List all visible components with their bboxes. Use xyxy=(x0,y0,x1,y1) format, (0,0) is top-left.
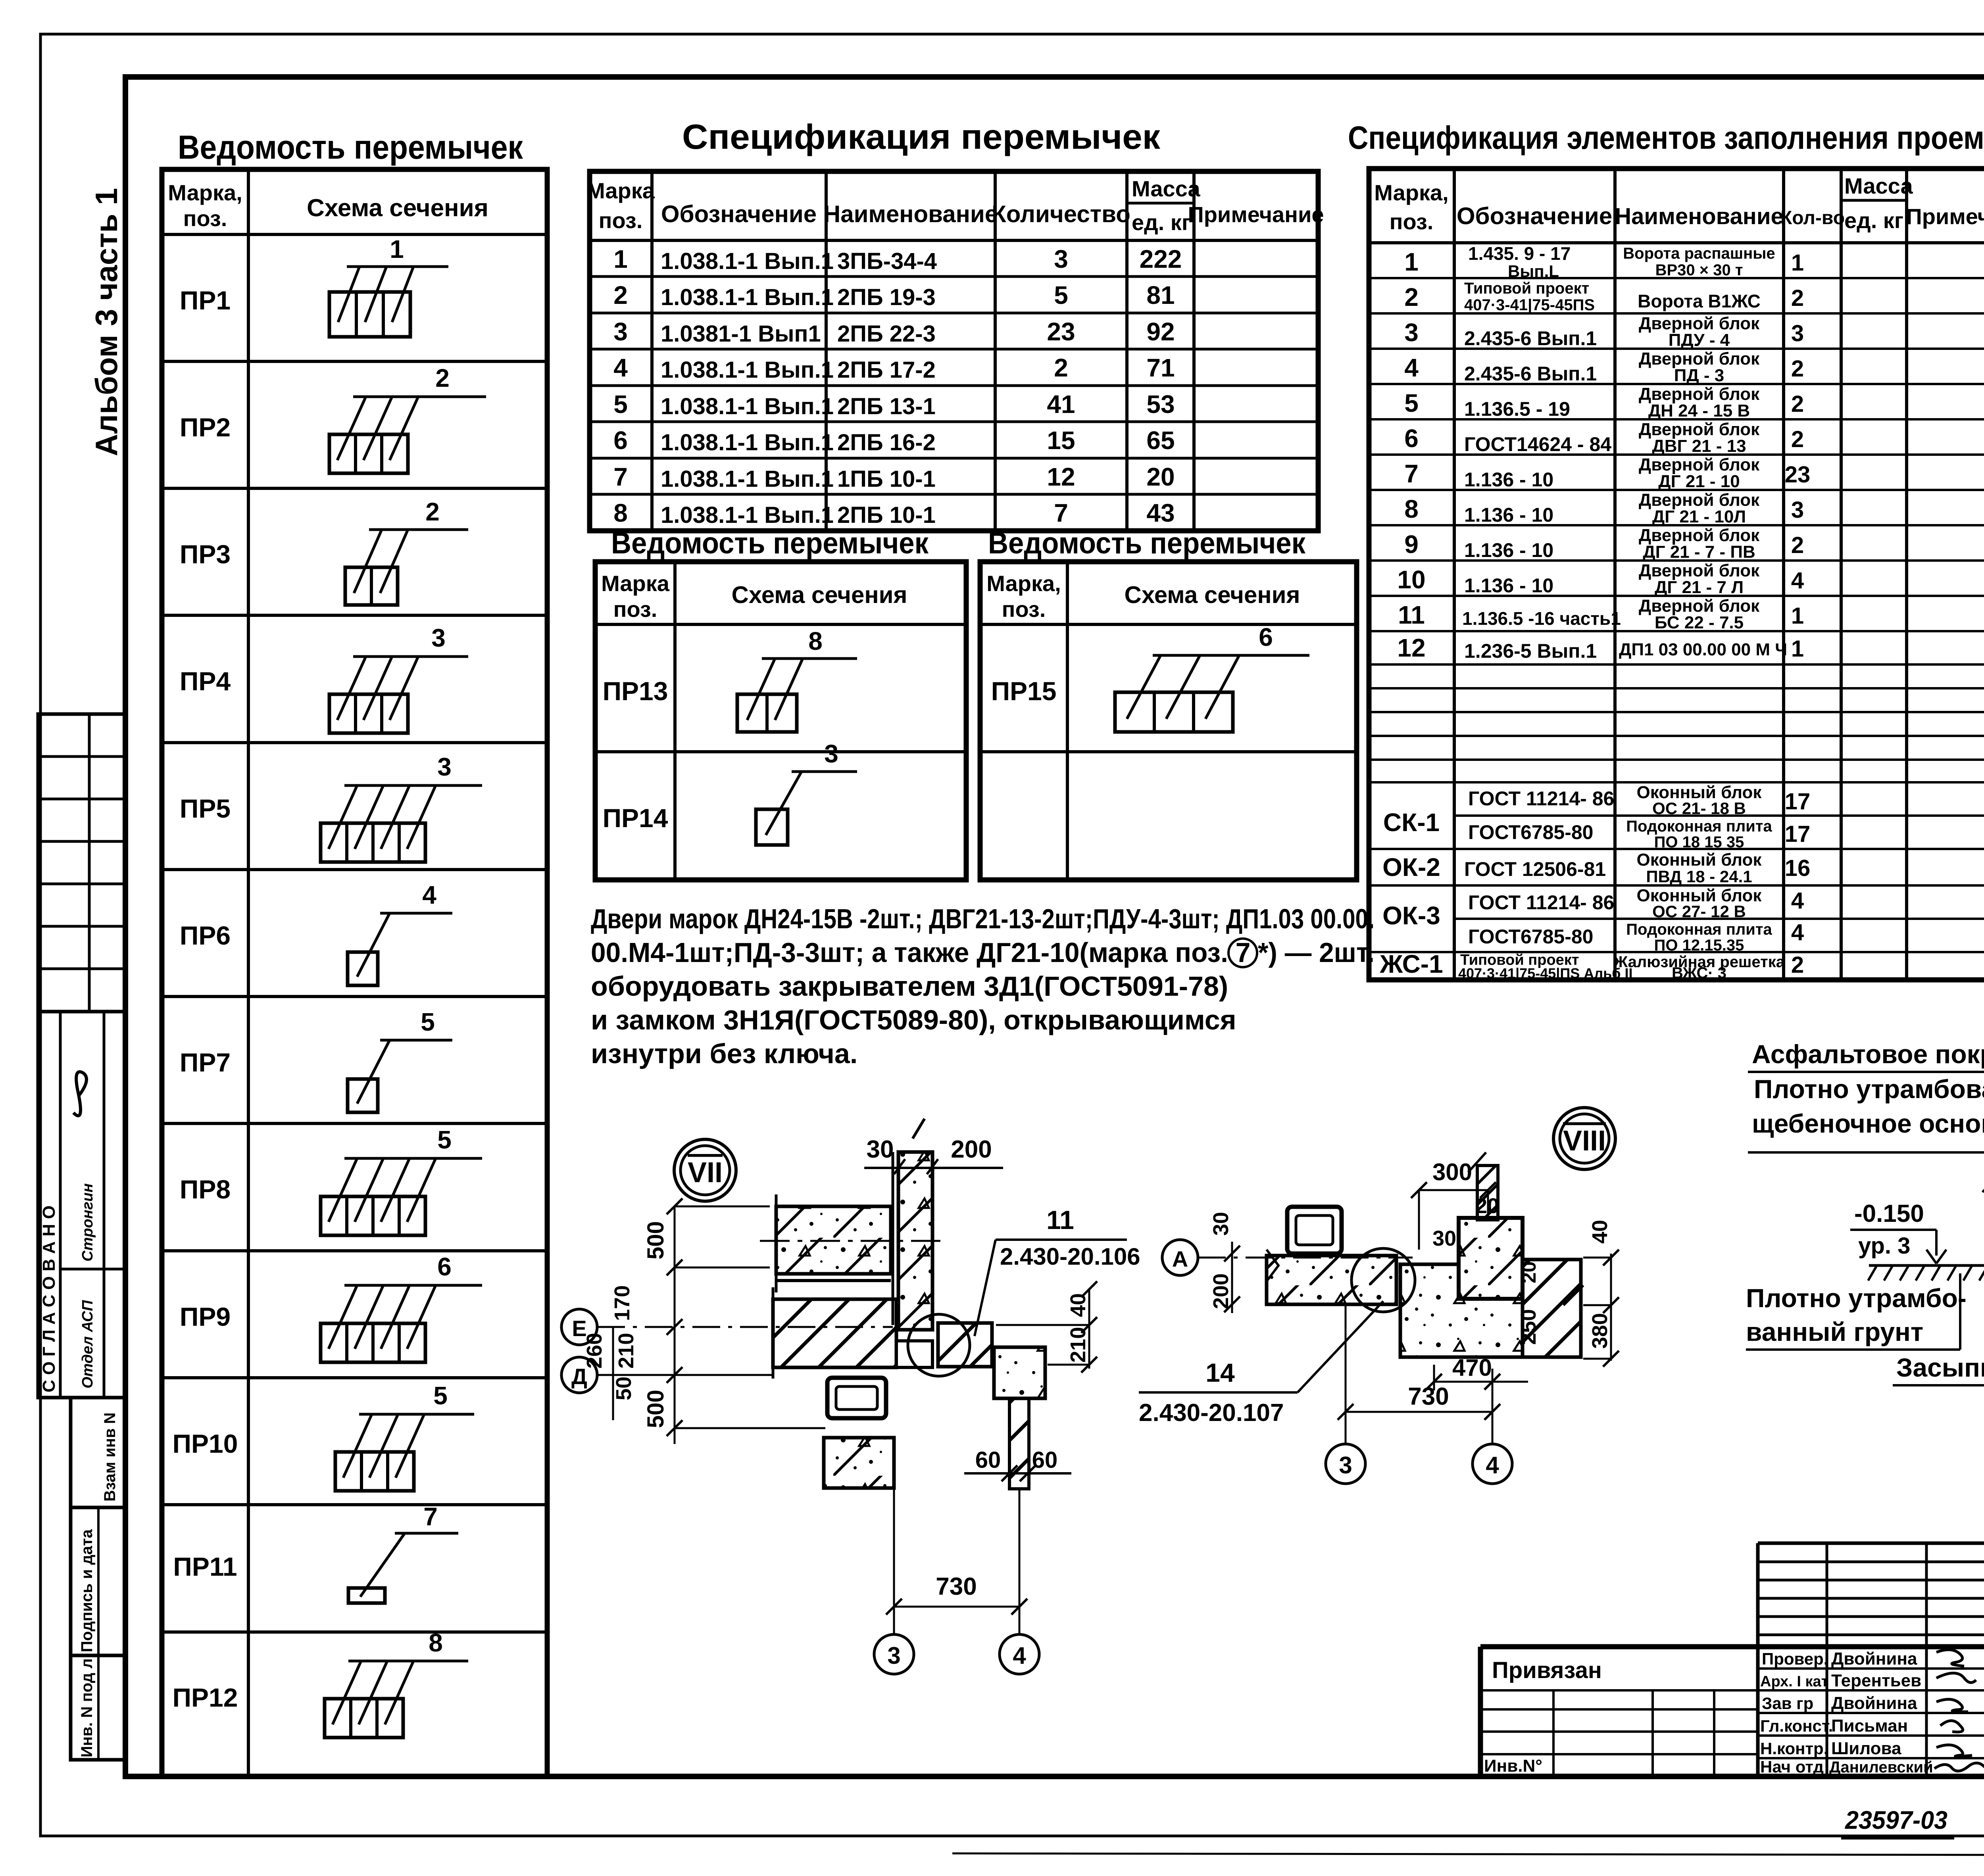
svg-text:1.038.1-1 Вып.1: 1.038.1-1 Вып.1 xyxy=(661,394,834,419)
svg-text:2: 2 xyxy=(1791,391,1804,417)
svg-text:ДГ 21 - 7 - ПВ: ДГ 21 - 7 - ПВ xyxy=(1643,542,1755,562)
svg-text:407·3·41|75-45|ПS Альб II: 407·3·41|75-45|ПS Альб II xyxy=(1458,965,1632,982)
svg-text:Вып.L: Вып.L xyxy=(1508,262,1559,280)
svg-text:1: 1 xyxy=(1404,248,1419,276)
svg-text:1.136 - 10: 1.136 - 10 xyxy=(1464,574,1553,597)
svg-text:2ПБ 13-1: 2ПБ 13-1 xyxy=(837,394,936,419)
svg-text:ПР15: ПР15 xyxy=(991,676,1057,706)
svg-text:и замком 3Н1Я(ГОСТ5089-80), от: и замком 3Н1Я(ГОСТ5089-80), открывающимс… xyxy=(591,1004,1236,1035)
svg-text:ЖС-1: ЖС-1 xyxy=(1379,950,1443,978)
svg-text:8: 8 xyxy=(1404,495,1419,523)
svg-text:Стронгин: Стронгин xyxy=(79,1183,96,1262)
svg-text:4: 4 xyxy=(1404,353,1419,382)
svg-text:ПР14: ПР14 xyxy=(603,803,668,833)
ПР6 section diagram xyxy=(348,881,452,985)
VII middle hatched slab xyxy=(773,1287,932,1379)
svg-text:ПР10: ПР10 xyxy=(173,1429,238,1458)
svg-text:ПР13: ПР13 xyxy=(603,676,668,706)
ПР9 section diagram xyxy=(321,1252,482,1362)
svg-text:Терентьев: Терентьев xyxy=(1831,1671,1921,1690)
svg-text:6: 6 xyxy=(1259,623,1273,651)
VIII steel tube profile xyxy=(1287,1207,1342,1254)
ПР10 section diagram xyxy=(335,1381,474,1491)
svg-text:ДГ 21 - 10: ДГ 21 - 10 xyxy=(1658,472,1740,491)
svg-text:2ПБ 17-2: 2ПБ 17-2 xyxy=(837,357,936,383)
svg-text:ПР5: ПР5 xyxy=(180,794,231,823)
svg-text:4: 4 xyxy=(1486,1452,1499,1479)
svg-text:9: 9 xyxy=(1404,530,1419,559)
svg-text:поз.: поз. xyxy=(613,597,657,622)
svg-text:17: 17 xyxy=(1785,821,1811,847)
svg-text:3ПБ-34-4: 3ПБ-34-4 xyxy=(837,248,937,274)
VIII dim 300 20 30 xyxy=(1411,1159,1499,1250)
svg-text:ОС 21- 18 В: ОС 21- 18 В xyxy=(1652,799,1746,818)
svg-text:380: 380 xyxy=(1588,1313,1612,1349)
svg-text:40: 40 xyxy=(1588,1220,1612,1244)
svg-text:Ведомость перемычек: Ведомость перемычек xyxy=(611,526,929,560)
title block outer frame xyxy=(1480,1601,1984,1776)
svg-text:4: 4 xyxy=(1013,1642,1026,1669)
svg-text:1: 1 xyxy=(613,245,628,273)
svg-text:ГОСТ 12506-81: ГОСТ 12506-81 xyxy=(1464,858,1606,880)
svg-text:7: 7 xyxy=(613,463,628,491)
svg-text:Взам инв N: Взам инв N xyxy=(101,1412,119,1502)
svg-text:Марка,: Марка, xyxy=(168,180,242,205)
svg-text:СК-1: СК-1 xyxy=(1383,808,1440,837)
svg-text:3: 3 xyxy=(437,753,452,781)
VIII leader 14 2.430-20.107 xyxy=(1139,1301,1383,1427)
svg-text:300: 300 xyxy=(1432,1159,1472,1185)
svg-text:Спецификация элементов заполне: Спецификация элементов заполнения проемо… xyxy=(1348,120,1984,156)
right table row lines xyxy=(1369,278,1984,952)
svg-text:Марка,: Марка, xyxy=(986,571,1061,596)
svg-text:Двойнина: Двойнина xyxy=(1831,1694,1917,1713)
svg-text:Схема сечения: Схема сечения xyxy=(1125,582,1300,608)
svg-text:ДП1 03 00.00 00 М Ч: ДП1 03 00.00 00 М Ч xyxy=(1619,640,1787,659)
svg-text:1.038.1-1 Вып.1: 1.038.1-1 Вып.1 xyxy=(661,466,834,492)
svg-text:Ведомость перемычек: Ведомость перемычек xyxy=(988,526,1306,560)
side stamp Взам инв N xyxy=(71,1398,126,1507)
VII axis circles Е Д xyxy=(561,1309,893,1393)
svg-text:1.038.1-1 Вып.1: 1.038.1-1 Вып.1 xyxy=(661,430,834,455)
svg-text:2: 2 xyxy=(1404,283,1419,311)
svg-text:Обозначение: Обозначение xyxy=(661,201,817,227)
svg-text:Плотно утрамбованное: Плотно утрамбованное xyxy=(1754,1074,1984,1104)
svg-text:Марка: Марка xyxy=(586,178,655,203)
VII dim 40 210 right xyxy=(996,1281,1097,1373)
svg-text:Масса: Масса xyxy=(1844,173,1913,198)
title: Ведомость перемычек (small table 2) xyxy=(988,526,1306,560)
svg-text:10: 10 xyxy=(1397,565,1425,594)
svg-text:1: 1 xyxy=(1791,603,1804,629)
svg-text:8: 8 xyxy=(613,499,628,527)
note paragraph about doors xyxy=(591,903,1375,1069)
svg-text:Ворота В1ЖС: Ворота В1ЖС xyxy=(1638,291,1761,311)
title block upper narrow grid xyxy=(1758,1536,1984,1647)
svg-text:Марка: Марка xyxy=(601,571,670,596)
svg-text:210: 210 xyxy=(614,1333,638,1369)
VIII dims 20 250 380 40 xyxy=(1517,1220,1619,1367)
svg-text:1.236-5 Вып.1: 1.236-5 Вып.1 xyxy=(1464,640,1597,662)
svg-text:4: 4 xyxy=(422,881,436,909)
svg-text:Альбом 3 часть 1: Альбом 3 часть 1 xyxy=(89,188,124,456)
IX level -0.150 ур.3 xyxy=(1850,1200,1946,1263)
svg-text:14: 14 xyxy=(1205,1358,1235,1387)
svg-text:3: 3 xyxy=(431,624,446,652)
svg-text:ур. 3: ур. 3 xyxy=(1858,1233,1910,1259)
svg-text:3: 3 xyxy=(887,1642,900,1669)
svg-text:16: 16 xyxy=(1785,855,1811,881)
svg-text:ПР1: ПР1 xyxy=(180,286,231,315)
svg-text:ПР9: ПР9 xyxy=(180,1302,231,1331)
svg-text:6: 6 xyxy=(613,426,628,455)
ПР15 section diagram xyxy=(1115,623,1309,732)
svg-text:2: 2 xyxy=(435,364,450,392)
svg-text:5: 5 xyxy=(437,1125,452,1154)
VII dim 30 200 xyxy=(864,1136,1003,1174)
svg-text:1.038.1-1 Вып.1: 1.038.1-1 Вып.1 xyxy=(661,248,834,274)
svg-text:поз.: поз. xyxy=(1002,597,1046,622)
svg-text:2: 2 xyxy=(1791,952,1804,978)
svg-text:ПДУ - 4: ПДУ - 4 xyxy=(1669,330,1730,350)
VIII left dims 30 200 xyxy=(1209,1212,1240,1313)
svg-text:Привязан: Привязан xyxy=(1492,1657,1602,1683)
svg-text:1.136 - 10: 1.136 - 10 xyxy=(1464,469,1553,491)
VII narrow column below xyxy=(1009,1398,1029,1489)
svg-text:щебеночное основание: щебеночное основание xyxy=(1752,1109,1984,1138)
svg-text:ДГ 21 - 7 Л: ДГ 21 - 7 Л xyxy=(1655,578,1744,597)
svg-text:2ПБ 10-1: 2ПБ 10-1 xyxy=(837,502,936,528)
svg-text:41: 41 xyxy=(1047,390,1075,419)
svg-text:730: 730 xyxy=(936,1573,977,1600)
svg-text:6: 6 xyxy=(437,1252,452,1281)
svg-text:60: 60 xyxy=(975,1447,1001,1473)
svg-text:Ведомость перемычек: Ведомость перемычек xyxy=(178,129,523,166)
svg-text:Подоконная плита: Подоконная плита xyxy=(1626,921,1772,938)
svg-text:поз.: поз. xyxy=(183,206,227,231)
VIII left slab xyxy=(1267,1250,1396,1304)
svg-text:2.430-20.107: 2.430-20.107 xyxy=(1139,1399,1284,1427)
svg-text:200: 200 xyxy=(1209,1273,1233,1309)
svg-text:1: 1 xyxy=(1791,250,1804,276)
svg-text:2: 2 xyxy=(425,497,440,526)
svg-text:2.435-6 Вып.1: 2.435-6 Вып.1 xyxy=(1464,327,1597,349)
svg-text:Схема сечения: Схема сечения xyxy=(732,582,907,608)
svg-text:ОК-2: ОК-2 xyxy=(1382,853,1440,881)
svg-text:ПД - 3: ПД - 3 xyxy=(1674,366,1724,385)
svg-text:ПР6: ПР6 xyxy=(180,921,231,950)
svg-text:ДГ 21 - 10Л: ДГ 21 - 10Л xyxy=(1652,507,1746,526)
svg-text:Двери марок ДН24-15В -2шт: Двери марок ДН24-15В -2шт.; ДВГ21-13-2шт… xyxy=(591,903,1375,934)
svg-text:ВЖС· 3: ВЖС· 3 xyxy=(1672,964,1726,982)
svg-text:Нач отд: Нач отд xyxy=(1760,1757,1824,1776)
svg-text:А: А xyxy=(1172,1246,1188,1271)
svg-text:Провер.: Провер. xyxy=(1762,1649,1828,1668)
ПР2 section diagram xyxy=(329,364,486,473)
VIII axis circle А xyxy=(1162,1240,1413,1275)
svg-text:Оконный блок: Оконный блок xyxy=(1637,850,1762,870)
svg-text:ПО 18 15 35: ПО 18 15 35 xyxy=(1654,833,1744,851)
VII right lintel block xyxy=(938,1323,992,1367)
svg-text:3: 3 xyxy=(1054,245,1068,273)
svg-text:30: 30 xyxy=(867,1136,894,1163)
svg-text:ПВД 18 - 24.1: ПВД 18 - 24.1 xyxy=(1646,867,1752,886)
svg-text:Арх. I кат: Арх. I кат xyxy=(1760,1673,1828,1690)
svg-text:Наименование: Наименование xyxy=(1615,204,1784,229)
VIII detail circle xyxy=(1352,1248,1415,1312)
svg-text:15: 15 xyxy=(1047,426,1075,455)
svg-text:2ПБ 16-2: 2ПБ 16-2 xyxy=(837,430,936,455)
side stamp upper empty grid xyxy=(38,714,126,1012)
VII leader 11 2.430-20.106 xyxy=(975,1205,1140,1336)
svg-text:4: 4 xyxy=(1791,888,1804,914)
svg-text:ПО 12.15.35: ПО 12.15.35 xyxy=(1654,937,1744,954)
svg-text:ГОСТ 11214- 86: ГОСТ 11214- 86 xyxy=(1468,891,1614,914)
svg-text:1.136 - 10: 1.136 - 10 xyxy=(1464,504,1553,526)
title block Привязан section xyxy=(1480,1657,1758,1776)
svg-text:3: 3 xyxy=(1791,321,1804,346)
svg-text:Кол-во: Кол-во xyxy=(1780,207,1845,228)
svg-text:11: 11 xyxy=(1046,1205,1074,1235)
VII lower concrete block xyxy=(824,1438,894,1488)
svg-text:2: 2 xyxy=(1791,426,1804,452)
left table Ведомость перемычек frame xyxy=(162,169,547,1776)
svg-text:1.038.1-1 Вып.1: 1.038.1-1 Вып.1 xyxy=(661,357,834,383)
svg-text:500: 500 xyxy=(643,1390,669,1428)
svg-text:Спецификация перемычек: Спецификация перемычек xyxy=(682,117,1161,156)
IX note Плотно утрамбованное щебеночное основание xyxy=(1748,1074,1984,1244)
svg-text:ед. кг: ед. кг xyxy=(1844,208,1903,233)
svg-text:ванный грунт: ванный грунт xyxy=(1746,1317,1923,1346)
svg-text:200: 200 xyxy=(951,1136,992,1163)
side stamp Согласовано block xyxy=(38,1012,126,1398)
svg-text:7: 7 xyxy=(1054,499,1068,527)
svg-text:Инв.N°: Инв.N° xyxy=(1484,1756,1542,1776)
ПР5 section diagram xyxy=(321,753,482,862)
title: Спецификация элементов заполнения проемов xyxy=(1348,120,1984,156)
svg-text:71: 71 xyxy=(1146,353,1175,382)
svg-text:ВР30 × 30 т: ВР30 × 30 т xyxy=(1655,261,1743,279)
title: Спецификация перемычек xyxy=(682,117,1161,156)
VIII upper concrete block xyxy=(1459,1218,1523,1299)
svg-text:23: 23 xyxy=(1047,317,1075,346)
svg-text:Отдел АСП: Отдел АСП xyxy=(79,1300,96,1388)
svg-text:210: 210 xyxy=(1066,1327,1090,1363)
svg-text:ГОСТ6785-80: ГОСТ6785-80 xyxy=(1468,926,1593,948)
svg-text:Примечание: Примечание xyxy=(1906,204,1984,229)
VII steel tube profile xyxy=(827,1378,886,1418)
VIII right hatched wall xyxy=(1523,1260,1583,1357)
IX note Засыпка шлаком xyxy=(1893,1321,1984,1385)
svg-text:3: 3 xyxy=(1404,318,1419,347)
svg-text:ед. кг: ед. кг xyxy=(1132,210,1191,235)
svg-text:поз.: поз. xyxy=(599,208,643,233)
svg-text:50: 50 xyxy=(612,1377,636,1400)
svg-text:2: 2 xyxy=(1791,356,1804,382)
svg-text:VII: VII xyxy=(688,1157,723,1189)
svg-text:1ПБ 10-1: 1ПБ 10-1 xyxy=(837,466,936,492)
svg-text:Плотно утрамбо-: Плотно утрамбо- xyxy=(1746,1283,1967,1313)
svg-text:Письман: Письман xyxy=(1831,1716,1908,1736)
svg-text:Зав гр: Зав гр xyxy=(1762,1694,1813,1713)
svg-text:8: 8 xyxy=(429,1628,443,1657)
svg-text:1.038.1-1 Вып.1: 1.038.1-1 Вып.1 xyxy=(661,502,834,528)
ПР12 section diagram xyxy=(325,1628,468,1738)
svg-text:Схема сечения: Схема сечения xyxy=(307,194,488,222)
VIII main concrete mass xyxy=(1400,1264,1523,1357)
svg-text:407·3-41|75-45ПS: 407·3-41|75-45ПS xyxy=(1464,296,1595,314)
svg-text:Типовой проект: Типовой проект xyxy=(1464,280,1589,297)
svg-text:Н.контр.: Н.контр. xyxy=(1760,1739,1828,1758)
section VII mark circle xyxy=(674,1139,736,1201)
svg-text:ПР7: ПР7 xyxy=(180,1048,231,1077)
svg-text:23597-03: 23597-03 xyxy=(1845,1806,1947,1834)
svg-text:7: 7 xyxy=(1404,459,1419,488)
IX note Асфальтовое покрытие xyxy=(1748,1039,1984,1072)
svg-text:730: 730 xyxy=(1408,1383,1449,1410)
right table Спецификация элементов заполнения проемов xyxy=(1369,169,1984,980)
svg-text:2.430-20.106: 2.430-20.106 xyxy=(1000,1243,1140,1270)
svg-text:Количество: Количество xyxy=(992,201,1130,227)
svg-text:оборудовать закрывателем 3Д1: оборудовать закрывателем 3Д1(ГОСТ5091-78… xyxy=(591,971,1228,1002)
svg-text:4: 4 xyxy=(613,353,628,382)
svg-text:1.038.1-1 Вып.1: 1.038.1-1 Вып.1 xyxy=(661,284,834,310)
IX dim 750 380 xyxy=(1982,1152,1984,1263)
svg-text:ГОСТ 11214- 86: ГОСТ 11214- 86 xyxy=(1468,787,1614,810)
ПР13 section diagram xyxy=(737,627,857,732)
svg-text:VIII: VIII xyxy=(1563,1125,1606,1157)
svg-text:5: 5 xyxy=(433,1381,448,1410)
svg-text:2ПБ 22-3: 2ПБ 22-3 xyxy=(837,321,936,347)
svg-text:ПР3: ПР3 xyxy=(180,540,231,569)
VII upper concrete block xyxy=(760,1194,940,1292)
VII right pier concrete block xyxy=(994,1347,1045,1398)
side stamp Инв N подл xyxy=(71,1655,126,1760)
svg-text:2.435-6 Вып.1: 2.435-6 Вып.1 xyxy=(1464,363,1597,385)
svg-text:поз.: поз. xyxy=(1390,209,1434,234)
svg-text:1.136.5 -16 часть1: 1.136.5 -16 часть1 xyxy=(1462,608,1621,629)
svg-text:С О Г Л А С О В А Н О: С О Г Л А С О В А Н О xyxy=(39,1206,59,1392)
svg-text:4: 4 xyxy=(1791,568,1804,593)
title: Ведомость перемычек (small table 1) xyxy=(611,526,929,560)
svg-text:Наименование: Наименование xyxy=(823,201,998,227)
svg-text:Ворота распашные: Ворота распашные xyxy=(1623,245,1775,262)
svg-text:ПР11: ПР11 xyxy=(173,1552,237,1581)
svg-text:1.136.5 - 19: 1.136.5 - 19 xyxy=(1464,398,1570,420)
title block signatures section xyxy=(1480,1647,1984,1776)
VII grid lines down to axis bubbles 3 4 xyxy=(874,1488,1039,1674)
svg-text:2: 2 xyxy=(613,281,628,309)
svg-text:23: 23 xyxy=(1785,462,1811,488)
svg-text:Подпись и дата: Подпись и дата xyxy=(78,1529,96,1652)
svg-text:Данилевский: Данилевский xyxy=(1829,1759,1933,1776)
VII left dimension chain xyxy=(583,1198,825,1444)
ПР4 section diagram xyxy=(329,624,468,733)
bottom edge artifact line xyxy=(952,1853,1984,1856)
svg-text:ДН 24 - 15 В: ДН 24 - 15 В xyxy=(1648,401,1750,421)
left margin rotated label: Альбом 3 часть 1 xyxy=(89,188,124,456)
VII detail circle xyxy=(908,1314,970,1376)
svg-text:ПР8: ПР8 xyxy=(180,1175,231,1204)
IX ground line with hatch xyxy=(1868,1265,1984,1281)
svg-text:Масса: Масса xyxy=(1132,176,1200,201)
svg-text:250: 250 xyxy=(1517,1309,1540,1345)
svg-text:ГОСТ14624 - 84: ГОСТ14624 - 84 xyxy=(1464,433,1611,455)
VIII upper hatched column xyxy=(1468,1152,1498,1220)
svg-text:1.136 - 10: 1.136 - 10 xyxy=(1464,539,1553,561)
svg-text:5: 5 xyxy=(613,390,628,419)
svg-text:3: 3 xyxy=(1339,1452,1352,1479)
svg-text:3: 3 xyxy=(1791,497,1804,523)
svg-text:222: 222 xyxy=(1140,245,1182,273)
ПР8 section diagram xyxy=(321,1125,482,1235)
svg-text:12: 12 xyxy=(1397,634,1425,662)
svg-text:6: 6 xyxy=(1404,424,1419,453)
IX note Плотно утрамбованный грунт xyxy=(1746,1273,1967,1350)
svg-text:Обозначение: Обозначение xyxy=(1457,203,1612,229)
svg-text:8: 8 xyxy=(808,627,823,655)
svg-text:ДВГ 21 - 13: ДВГ 21 - 13 xyxy=(1652,436,1746,456)
svg-text:Примечание: Примечание xyxy=(1188,202,1324,227)
svg-text:3: 3 xyxy=(613,317,628,346)
svg-text:5: 5 xyxy=(1054,281,1068,309)
side stamp Подпись и дата xyxy=(71,1507,126,1655)
svg-text:Двойнина: Двойнина xyxy=(1831,1649,1917,1669)
svg-text:30: 30 xyxy=(1209,1212,1233,1236)
svg-text:-0.150: -0.150 xyxy=(1854,1200,1924,1227)
VII dim 60 60 xyxy=(964,1447,1071,1481)
svg-text:3: 3 xyxy=(824,739,838,768)
central table Спецификация перемычек xyxy=(586,171,1324,531)
svg-text:изнутри без ключа.: изнутри без ключа. xyxy=(591,1038,857,1069)
svg-text:1: 1 xyxy=(1791,636,1804,662)
svg-text:60: 60 xyxy=(1032,1447,1058,1473)
svg-text:2: 2 xyxy=(1791,285,1804,311)
ПР3 section diagram xyxy=(345,497,468,605)
svg-text:92: 92 xyxy=(1146,317,1175,346)
svg-text:30: 30 xyxy=(1432,1227,1456,1250)
svg-text:Асфальтовое покрытие - 25: Асфальтовое покрытие - 25 xyxy=(1752,1039,1984,1069)
svg-text:ГОСТ6785-80: ГОСТ6785-80 xyxy=(1468,821,1593,843)
svg-text:Засыпка шлаком: Засыпка шлаком xyxy=(1896,1353,1984,1382)
title: Ведомость перемычек (left table) xyxy=(178,129,523,166)
svg-text:470: 470 xyxy=(1452,1354,1492,1381)
svg-text:5: 5 xyxy=(421,1008,435,1036)
svg-text:81: 81 xyxy=(1146,281,1175,309)
ПР7 section diagram xyxy=(348,1008,452,1112)
svg-text:170: 170 xyxy=(610,1285,634,1321)
svg-text:53: 53 xyxy=(1146,390,1175,419)
svg-text:ПР4: ПР4 xyxy=(180,666,231,696)
bottom text 23597-03 xyxy=(1841,1806,1954,1838)
svg-text:7: 7 xyxy=(423,1502,438,1531)
ПР14 section diagram xyxy=(756,739,857,845)
svg-text:Гл.конст.: Гл.конст. xyxy=(1760,1717,1833,1735)
svg-text:ПР12: ПР12 xyxy=(173,1683,238,1712)
svg-text:20: 20 xyxy=(1518,1261,1540,1283)
right table window rows content xyxy=(1379,783,1810,982)
svg-text:4: 4 xyxy=(1791,920,1804,945)
svg-text:65: 65 xyxy=(1146,426,1175,455)
small table ПР13 ПР14 xyxy=(595,562,966,880)
svg-text:1: 1 xyxy=(390,235,404,263)
svg-text:БС 22 - 7.5: БС 22 - 7.5 xyxy=(1655,613,1744,632)
right table rows 1-12 content xyxy=(1397,243,1810,662)
svg-text:5: 5 xyxy=(1404,389,1419,417)
svg-text:40: 40 xyxy=(1066,1293,1090,1317)
svg-text:11: 11 xyxy=(1398,601,1425,629)
svg-text:ОК-3: ОК-3 xyxy=(1382,901,1440,930)
